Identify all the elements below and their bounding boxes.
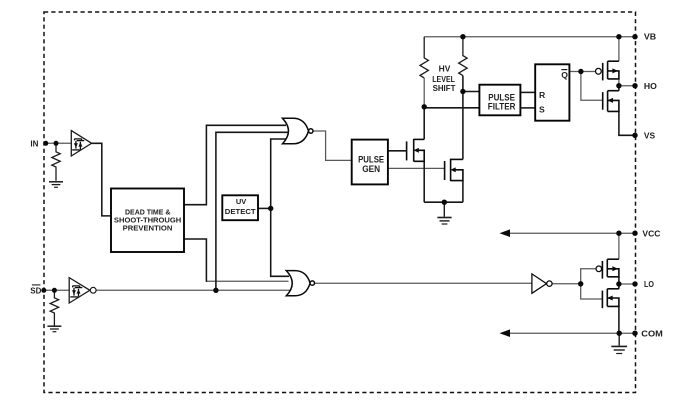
svg-text:R: R — [539, 90, 546, 100]
WIRES-GRAY-GROUP — [44, 37, 635, 334]
label SD overline — [32, 284, 41, 286]
wire dead-time lower output to lower NOR (tail) — [206, 280, 288, 282]
node VCC pin — [632, 231, 637, 236]
wire pulse gen lower output to Q2 gate — [388, 167, 445, 169]
wire IN buffer output to dead-time block — [91, 143, 111, 216]
node A (left resistor / Q1 drain) — [422, 104, 427, 109]
schmitt buffer U-IN — [71, 131, 91, 156]
node GND-LS junction — [442, 200, 447, 205]
wire dead-time upper output to top NOR input 1 — [184, 125, 286, 204]
svg-text:SD: SD — [30, 287, 41, 296]
node SD-2 — [52, 288, 57, 293]
wire node D up to Q5 gate bubble — [581, 269, 596, 284]
transistor Q3 (high-side P output) — [596, 68, 602, 74]
wire Q6 drain to LO node — [618, 284, 620, 289]
wire node E down to lower NOR input 1 — [271, 208, 289, 276]
wire IN pin to buffer — [44, 142, 71, 144]
node COM pin — [632, 331, 637, 336]
wire UV detect to node E — [258, 207, 271, 209]
node COM junction — [617, 331, 622, 336]
wire left resistor bottom lead — [423, 78, 425, 107]
wire Q4 source to VS pin — [619, 111, 635, 135]
wire node C down to Q4 gate — [581, 72, 603, 101]
node IN-2 — [54, 141, 59, 146]
node IN-1 — [43, 141, 48, 146]
node VB-Q3 — [616, 34, 621, 39]
svg-text:PREVENTION: PREVENTION — [123, 226, 173, 233]
arrow VCC (to external) — [500, 229, 511, 237]
wire pulse filter S output to latch — [520, 107, 535, 109]
wire SD net vertical to top NOR input 2 — [216, 132, 288, 290]
wire SD pin to inverter — [44, 289, 69, 291]
wire Q4 drain to HO node — [618, 86, 620, 91]
wire Q3 drain to VB rail — [618, 37, 620, 62]
wire HO node to pin — [619, 85, 635, 87]
ground GND-SD — [47, 326, 61, 332]
node HO junction — [616, 83, 621, 88]
dead time block — [111, 189, 184, 253]
wire latch output to node C — [569, 71, 595, 73]
node VCC junction — [616, 231, 621, 236]
wire lower NOR output to inverter — [315, 282, 532, 284]
svg-text:FILTER: FILTER — [488, 102, 516, 112]
wire S path from node A to pulse filter — [424, 107, 479, 109]
wire Q5 source to LO node — [618, 277, 620, 284]
wire Q3 source to HO node — [618, 79, 620, 86]
wire COM rail — [507, 332, 635, 334]
resistor R-SD (input pulldown) — [50, 293, 58, 326]
transistor Q6 (low-side N output) — [602, 289, 619, 308]
WIRES-DARK-GROUP — [91, 76, 635, 334]
svg-text:SHOOT-THROUGH: SHOOT-THROUGH — [114, 218, 181, 225]
svg-text:LO: LO — [644, 279, 654, 289]
svg-text:COM: COM — [641, 329, 663, 339]
svg-text:VB: VB — [644, 32, 656, 42]
node VS pin — [632, 133, 637, 138]
resistor R1 (HV level shift left) — [420, 37, 428, 78]
node VB-R2 — [460, 34, 465, 39]
node C (latch out) — [578, 69, 583, 74]
svg-text:DETECT: DETECT — [225, 207, 256, 216]
wire SD inverter output to lower NOR input — [96, 289, 289, 291]
schmitt inverter U-SD — [69, 278, 96, 303]
svg-text:SHIFT: SHIFT — [433, 83, 456, 93]
wire node D down to Q6 gate — [581, 284, 603, 299]
transistor Q2 (level shift right) — [445, 159, 463, 182]
svg-text:Q: Q — [561, 70, 568, 80]
svg-text:DEAD TIME &: DEAD TIME & — [125, 210, 170, 217]
resistor R2 (HV level shift right) — [459, 37, 467, 76]
node D (inverter out) — [578, 281, 583, 286]
wire Q2 source down to gnd rail — [462, 181, 464, 203]
node HO pin — [632, 83, 637, 88]
node SD-NOR — [213, 288, 218, 293]
wire inverter output to node D — [552, 283, 581, 285]
svg-text:UV: UV — [236, 197, 246, 206]
ground GND-LS — [437, 202, 451, 224]
wire pulse filter R output to latch — [520, 91, 535, 93]
svg-text:HV: HV — [439, 64, 451, 74]
ground GND-IN — [49, 182, 63, 188]
UV detect block — [222, 195, 258, 220]
svg-text:HO: HO — [644, 81, 657, 91]
node LO junction — [616, 281, 621, 286]
svg-text:IN: IN — [30, 140, 38, 149]
node LO pin — [632, 281, 637, 286]
wire gnd rail of level shifter — [424, 201, 463, 203]
svg-text:S: S — [539, 105, 545, 115]
node B (right resistor / Q2 drain) — [460, 89, 465, 94]
ground GND-COM — [611, 333, 627, 353]
transistor Q5 (low-side P output) — [596, 266, 602, 272]
wire pulse gen upper output to Q1 gate — [388, 150, 407, 152]
inverter U-LO — [532, 274, 547, 293]
NOR gate G1 (high side) — [283, 118, 313, 144]
resistor R-IN (input pulldown) — [52, 146, 60, 181]
wire top NOR output to pulse gen — [313, 131, 352, 160]
wire R path from node B to pulse filter — [463, 91, 480, 93]
wire Q1 drain up to node A — [423, 107, 425, 140]
arrow COM (to external) — [500, 329, 511, 337]
node VB pin — [632, 34, 637, 39]
wire VCC rail — [507, 232, 635, 234]
wire right resistor lead down to Q2 drain — [462, 76, 464, 160]
wire dead-time lower output elbow — [184, 239, 206, 282]
transistor Q1 (level shift left) — [407, 139, 425, 162]
pulse gen block — [352, 140, 388, 185]
wire Q1 source down to gnd rail — [423, 161, 425, 202]
svg-text:VS: VS — [644, 131, 655, 141]
latch U-RS — [535, 64, 569, 120]
node SD-1 — [41, 288, 46, 293]
pulse filter block — [479, 85, 520, 116]
svg-text:GEN: GEN — [362, 164, 380, 174]
wire VCC to Q5 drain — [618, 233, 620, 259]
wire Q6 source to COM rail — [618, 306, 620, 333]
transistor Q4 (high-side N output) — [603, 91, 619, 112]
node E (UV output) — [268, 206, 273, 211]
wire LO node to pin — [619, 283, 635, 285]
wire VB rail — [424, 36, 635, 38]
svg-text:VCC: VCC — [642, 229, 660, 239]
label HV LEVEL SHIFT — [432, 64, 456, 94]
svg-text:PULSE: PULSE — [358, 155, 384, 165]
wire node E up to top NOR input 3 — [271, 139, 286, 208]
NOR gate G2 (low side) — [286, 271, 314, 296]
